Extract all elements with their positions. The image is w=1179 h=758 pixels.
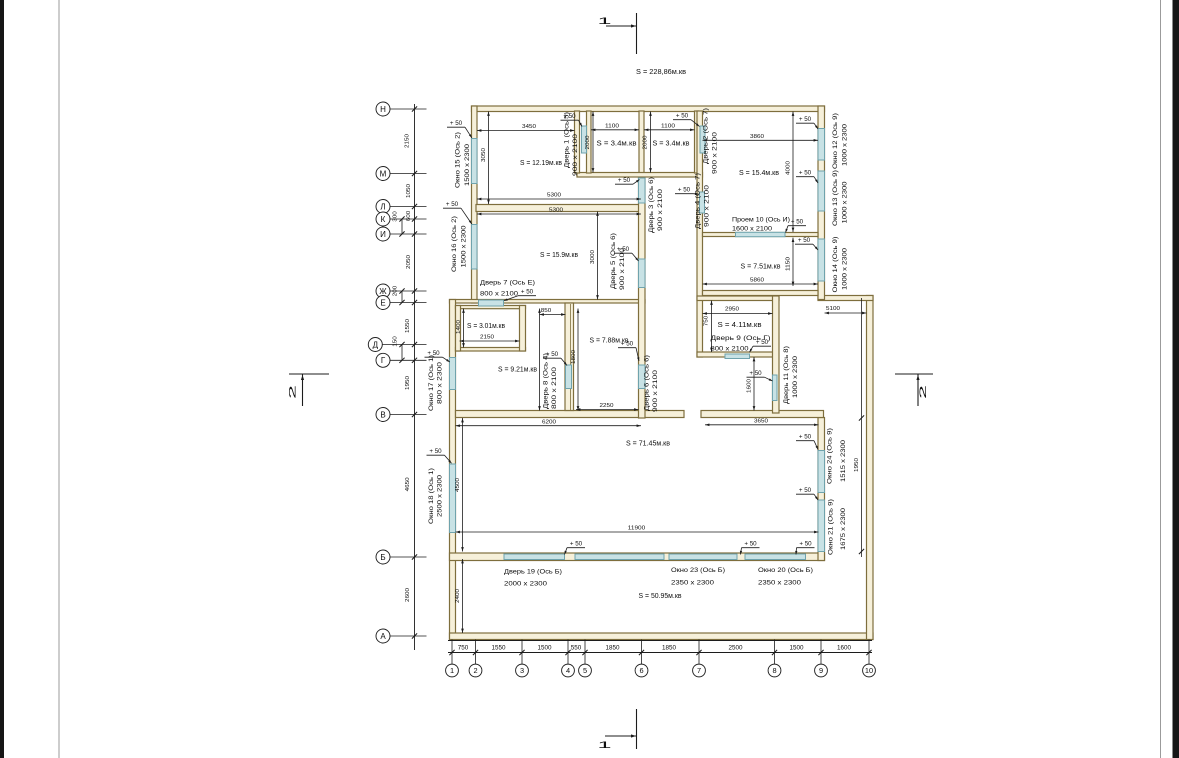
svg-text:+ 50: + 50 xyxy=(791,219,804,226)
svg-text:Л: Л xyxy=(380,202,385,211)
svg-text:Окно 21 (Ось 9): Окно 21 (Ось 9) xyxy=(828,499,835,555)
svg-text:Г: Г xyxy=(381,356,386,365)
svg-text:5860: 5860 xyxy=(750,278,764,284)
svg-text:900 x 2100: 900 x 2100 xyxy=(712,132,719,174)
svg-text:2050: 2050 xyxy=(406,255,412,269)
svg-text:Е: Е xyxy=(380,298,385,307)
svg-text:8: 8 xyxy=(772,666,776,675)
svg-text:11900: 11900 xyxy=(628,526,646,532)
svg-text:А: А xyxy=(380,632,386,641)
svg-text:Дверь 19 (Ось Б): Дверь 19 (Ось Б) xyxy=(504,569,562,576)
svg-text:Дверь 5 (Ось 6): Дверь 5 (Ось 6) xyxy=(610,233,617,289)
svg-text:2150: 2150 xyxy=(405,134,411,148)
svg-text:1600: 1600 xyxy=(837,644,852,651)
svg-text:6200: 6200 xyxy=(542,420,556,426)
svg-text:2400: 2400 xyxy=(455,589,461,603)
svg-text:1600: 1600 xyxy=(747,379,753,393)
svg-text:+ 50: + 50 xyxy=(749,370,762,377)
svg-text:1950: 1950 xyxy=(405,376,411,390)
svg-text:4650: 4650 xyxy=(405,477,411,491)
svg-text:1850: 1850 xyxy=(606,644,621,651)
svg-text:2: 2 xyxy=(473,666,477,675)
svg-text:2000: 2000 xyxy=(585,136,591,150)
svg-text:1000 x 2300: 1000 x 2300 xyxy=(792,356,799,398)
svg-text:К: К xyxy=(381,215,386,224)
svg-text:2: 2 xyxy=(288,385,299,399)
svg-text:2350 x 2300: 2350 x 2300 xyxy=(758,580,801,587)
svg-text:800 x 2100: 800 x 2100 xyxy=(480,291,518,298)
svg-text:1: 1 xyxy=(450,666,454,675)
svg-text:S = 4.11м.кв: S = 4.11м.кв xyxy=(718,322,762,329)
svg-text:750: 750 xyxy=(704,316,710,327)
svg-text:2250: 2250 xyxy=(600,403,614,409)
svg-text:+ 50: + 50 xyxy=(676,113,689,120)
svg-text:+ 50: + 50 xyxy=(429,448,442,455)
svg-text:Окно 14 (Ось 9): Окно 14 (Ось 9) xyxy=(832,237,839,293)
svg-text:4000: 4000 xyxy=(786,161,792,175)
svg-text:900 x 2100: 900 x 2100 xyxy=(619,248,626,290)
svg-text:6: 6 xyxy=(639,666,643,675)
svg-text:В: В xyxy=(380,410,385,419)
svg-text:Окно 12 (Ось 9): Окно 12 (Ось 9) xyxy=(832,113,839,169)
svg-text:+ 50: + 50 xyxy=(678,187,691,194)
svg-text:900 x 2100: 900 x 2100 xyxy=(704,185,711,227)
svg-text:Дверь 7 (Ось Е): Дверь 7 (Ось Е) xyxy=(480,280,535,287)
svg-text:1600 x 2100: 1600 x 2100 xyxy=(732,226,772,233)
svg-text:1550: 1550 xyxy=(492,644,507,651)
svg-text:S = 7.51м.кв: S = 7.51м.кв xyxy=(741,264,781,271)
svg-text:S = 12.19м.кв: S = 12.19м.кв xyxy=(520,160,562,167)
svg-text:+ 50: + 50 xyxy=(618,177,631,184)
svg-text:4: 4 xyxy=(566,666,570,675)
svg-text:1150: 1150 xyxy=(786,257,792,271)
svg-text:Дверь 8 (Ось 4): Дверь 8 (Ось 4) xyxy=(543,353,550,409)
svg-text:1950: 1950 xyxy=(854,458,860,472)
svg-text:1850: 1850 xyxy=(662,644,677,651)
svg-text:Окно 20 (Ось Б): Окно 20 (Ось Б) xyxy=(758,567,813,574)
svg-text:3450: 3450 xyxy=(522,124,536,130)
svg-text:1100: 1100 xyxy=(605,124,619,130)
svg-text:5300: 5300 xyxy=(549,208,563,214)
svg-text:5: 5 xyxy=(583,666,587,675)
svg-text:1050: 1050 xyxy=(406,184,412,198)
svg-text:Дверь 3 (Ось 6): Дверь 3 (Ось 6) xyxy=(648,177,655,233)
svg-text:+ 50: + 50 xyxy=(799,541,812,548)
svg-text:S = 9.21м.кв: S = 9.21м.кв xyxy=(498,367,537,374)
svg-text:Дверь 4 (Ось 7): Дверь 4 (Ось 7) xyxy=(695,173,702,229)
svg-text:+ 50: + 50 xyxy=(799,487,812,494)
svg-text:4500: 4500 xyxy=(455,478,461,492)
svg-text:3050: 3050 xyxy=(481,148,487,162)
svg-text:+ 50: + 50 xyxy=(744,541,757,548)
svg-text:1515 x 2300: 1515 x 2300 xyxy=(840,440,847,482)
svg-text:1000 x 2300: 1000 x 2300 xyxy=(842,124,849,166)
svg-text:2600: 2600 xyxy=(405,588,411,602)
svg-text:1675 x 2300: 1675 x 2300 xyxy=(840,508,847,550)
svg-text:+ 50: + 50 xyxy=(570,541,583,548)
svg-text:И: И xyxy=(380,230,386,239)
svg-text:5100: 5100 xyxy=(826,306,840,312)
svg-text:М: М xyxy=(380,169,387,178)
svg-text:1500 x 2300: 1500 x 2300 xyxy=(464,144,471,186)
svg-text:Проем 10 (Ось И): Проем 10 (Ось И) xyxy=(732,217,790,224)
svg-text:+ 50: + 50 xyxy=(521,289,534,296)
svg-text:2350 x 2300: 2350 x 2300 xyxy=(671,580,714,587)
svg-text:850: 850 xyxy=(541,308,552,314)
svg-text:2950: 2950 xyxy=(725,307,739,313)
svg-text:2: 2 xyxy=(918,385,929,399)
svg-text:3650: 3650 xyxy=(754,419,768,425)
svg-text:1000 x 2300: 1000 x 2300 xyxy=(842,181,849,223)
svg-text:1500: 1500 xyxy=(790,644,805,651)
svg-text:1: 1 xyxy=(598,16,612,27)
svg-text:S = 3.4м.кв: S = 3.4м.кв xyxy=(597,141,637,148)
svg-text:S = 15.4м.кв: S = 15.4м.кв xyxy=(739,170,779,177)
svg-text:3: 3 xyxy=(520,666,524,675)
svg-text:Окно 18 (Ось 1): Окно 18 (Ось 1) xyxy=(428,468,435,524)
svg-text:3000: 3000 xyxy=(590,250,596,264)
svg-text:800 x 2300: 800 x 2300 xyxy=(437,362,444,404)
svg-text:S = 50.95м.кв: S = 50.95м.кв xyxy=(639,593,682,600)
svg-text:+ 50: + 50 xyxy=(799,116,812,123)
svg-text:1500: 1500 xyxy=(538,644,553,651)
svg-text:Ж: Ж xyxy=(379,287,387,296)
svg-text:150: 150 xyxy=(393,336,399,347)
svg-text:S = 7.88м.кв: S = 7.88м.кв xyxy=(590,338,629,345)
svg-text:3860: 3860 xyxy=(750,134,764,140)
svg-text:Н: Н xyxy=(380,105,386,114)
svg-text:Дверь 1 (Ось 5): Дверь 1 (Ось 5) xyxy=(564,112,571,168)
svg-text:Б: Б xyxy=(380,553,385,562)
svg-text:1: 1 xyxy=(598,740,612,751)
svg-text:9: 9 xyxy=(819,666,823,675)
svg-text:1550: 1550 xyxy=(405,319,411,333)
svg-text:Окно 13 (Ось 9): Окно 13 (Ось 9) xyxy=(832,170,839,226)
svg-text:Дверь 2 (Ось 7): Дверь 2 (Ось 7) xyxy=(703,108,710,164)
svg-text:2500: 2500 xyxy=(729,644,744,651)
svg-text:900 x 2100: 900 x 2100 xyxy=(657,189,664,231)
svg-text:S = 3.4м.кв: S = 3.4м.кв xyxy=(653,141,690,148)
svg-text:800 x 2100: 800 x 2100 xyxy=(551,367,558,409)
svg-text:Окно 17 (Ось 1): Окно 17 (Ось 1) xyxy=(428,355,435,411)
svg-text:750: 750 xyxy=(458,644,469,651)
svg-text:Окно 23 (Ось Б): Окно 23 (Ось Б) xyxy=(671,567,725,574)
svg-text:800 x 2100: 800 x 2100 xyxy=(711,346,749,353)
svg-text:300: 300 xyxy=(393,211,399,222)
svg-text:1800: 1800 xyxy=(571,350,577,364)
svg-text:10: 10 xyxy=(865,666,873,675)
svg-text:+ 50: + 50 xyxy=(799,434,812,441)
svg-text:2000: 2000 xyxy=(643,136,649,150)
svg-text:Д: Д xyxy=(373,340,379,349)
svg-text:S = 71.45м.кв: S = 71.45м.кв xyxy=(626,441,670,448)
svg-text:+ 50: + 50 xyxy=(450,120,463,127)
svg-text:Окно 24 (Ось 9): Окно 24 (Ось 9) xyxy=(827,428,834,484)
svg-text:200: 200 xyxy=(393,286,399,297)
svg-text:S = 3.01м.кв: S = 3.01м.кв xyxy=(467,323,505,330)
svg-text:Дверь 11 (Ось 8): Дверь 11 (Ось 8) xyxy=(783,346,790,404)
svg-text:+ 50: + 50 xyxy=(799,170,812,177)
svg-text:Окно 16 (Ось 2): Окно 16 (Ось 2) xyxy=(451,216,458,272)
svg-text:2150: 2150 xyxy=(480,335,494,341)
svg-text:7: 7 xyxy=(697,666,701,675)
svg-text:2000 x 2300: 2000 x 2300 xyxy=(504,581,547,588)
svg-text:5300: 5300 xyxy=(547,193,561,199)
svg-text:900 x 2100: 900 x 2100 xyxy=(652,370,659,412)
svg-text:1000 x 2300: 1000 x 2300 xyxy=(842,248,849,290)
svg-text:1500 x 2300: 1500 x 2300 xyxy=(461,225,468,267)
svg-text:S = 228,86м.кв: S = 228,86м.кв xyxy=(636,69,686,76)
svg-text:S = 15.9м.кв: S = 15.9м.кв xyxy=(540,252,578,259)
svg-text:+ 50: + 50 xyxy=(798,237,811,244)
svg-text:+ 50: + 50 xyxy=(446,201,459,208)
svg-text:1100: 1100 xyxy=(661,124,675,130)
svg-text:1400: 1400 xyxy=(456,320,462,334)
svg-text:Дверь 9 (Ось Г): Дверь 9 (Ось Г) xyxy=(711,335,771,342)
svg-text:Окно 15 (Ось 2): Окно 15 (Ось 2) xyxy=(455,132,462,188)
svg-text:2500 x 2300: 2500 x 2300 xyxy=(437,475,444,517)
svg-text:550: 550 xyxy=(571,644,582,651)
svg-text:900 x 2100: 900 x 2100 xyxy=(572,134,579,176)
svg-text:Дверь 6 (Ось 6): Дверь 6 (Ось 6) xyxy=(644,355,651,411)
svg-text:600: 600 xyxy=(406,211,412,222)
